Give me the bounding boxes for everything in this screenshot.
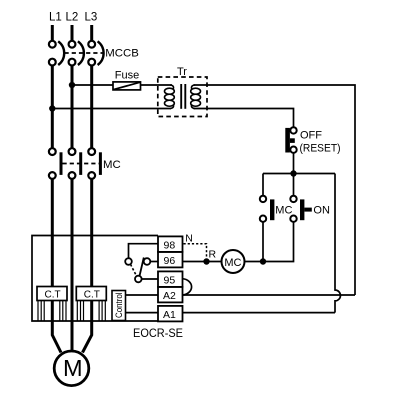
svg-text:L1: L1: [49, 12, 62, 24]
wire L2 mid: [71, 66, 74, 149]
wire jumper 95 to A2: [183, 279, 192, 295]
wire L1 top lead: [51, 25, 54, 41]
svg-text:96: 96: [164, 255, 176, 267]
svg-text:M: M: [63, 355, 83, 381]
svg-text:A1: A1: [163, 309, 176, 321]
current transformer C.T 1 legs: [38, 301, 66, 322]
contactor MC linkage dashed: [63, 163, 102, 165]
svg-text:Control: Control: [114, 293, 124, 319]
wire L2 junction to fuse: [72, 84, 113, 86]
transformer Tr primary coil: [165, 85, 175, 109]
node junction L2 to fuse: [69, 82, 75, 88]
svg-text:C.T: C.T: [45, 290, 61, 301]
breaker MCCB pole 1: [49, 41, 64, 66]
svg-text:ON: ON: [313, 204, 330, 216]
wire branch left down to MC aux: [262, 174, 264, 196]
transformer Tr enclosure dashed: [158, 77, 207, 117]
wire control to A2: [126, 294, 159, 296]
wire transformer secondary top to right rail: [194, 85, 356, 295]
terminal A2: [158, 287, 183, 303]
svg-text:EOCR-SE: EOCR-SE: [133, 326, 183, 340]
wire branch right down to A1 rail with hop: [335, 174, 340, 313]
node junction R tap: [203, 258, 209, 264]
transformer Tr secondary coil: [191, 85, 201, 109]
svg-text:Tr: Tr: [177, 66, 187, 78]
wire fuse to transformer: [141, 84, 173, 86]
wire control to A1: [126, 312, 159, 314]
current transformer C.T 2 legs: [77, 301, 105, 322]
wire branch mid down to ON: [293, 174, 295, 196]
current transformer C.T 1: [37, 287, 67, 301]
svg-text:Fuse: Fuse: [115, 70, 139, 82]
coil MC contactor: [222, 250, 245, 273]
relay changeover contact: [125, 258, 150, 283]
pushbutton OFF (RESET): [285, 127, 296, 153]
contact MC auxiliary NO: [260, 196, 275, 222]
wire L1 junction to transformer: [52, 108, 171, 110]
svg-text:MC: MC: [103, 159, 121, 171]
wire MC aux bottom to coil row: [262, 222, 264, 262]
contactor MC main pole 2: [69, 148, 83, 179]
wire L1 to motor: [52, 321, 61, 353]
svg-text:95: 95: [164, 274, 176, 286]
svg-text:A2: A2: [163, 290, 176, 302]
wire A1 rail: [183, 312, 336, 314]
breaker MCCB pole 2: [69, 41, 84, 66]
terminal A1: [158, 306, 183, 322]
wire L3 lower: [90, 179, 93, 321]
wire L3 mid: [90, 66, 93, 149]
svg-text:N: N: [185, 232, 193, 244]
current transformer C.T 2: [76, 287, 106, 301]
svg-text:MC: MC: [275, 204, 292, 216]
wire L2 top lead: [71, 25, 74, 41]
relay EOCR-SE enclosure: [32, 236, 158, 322]
svg-text:MCCB: MCCB: [105, 48, 139, 60]
wire L1 mid: [51, 66, 54, 149]
svg-text:R: R: [209, 249, 217, 261]
wire L3 top lead: [90, 25, 93, 41]
wire A2 rail: [183, 294, 356, 296]
wire L3 to motor: [83, 321, 92, 353]
wire relay NO to 98: [129, 244, 159, 259]
contactor MC main pole 1: [49, 148, 63, 179]
breaker MCCB linkage dashed: [65, 52, 105, 54]
wire dashed N tap: [184, 244, 207, 258]
control unit box: [112, 291, 126, 321]
terminal 96: [158, 252, 183, 268]
wire coil to junction: [245, 261, 264, 263]
wire L2 to motor: [71, 321, 74, 352]
breaker MCCB pole 3: [88, 41, 103, 66]
svg-text:OFF: OFF: [300, 130, 322, 142]
svg-text:MC: MC: [224, 257, 241, 269]
node junction L1 to transformer: [49, 105, 55, 111]
wire branch horizontal: [263, 173, 335, 175]
svg-text:98: 98: [164, 239, 176, 251]
svg-text:L2: L2: [66, 12, 79, 24]
svg-text:L3: L3: [85, 12, 98, 24]
wire terminal 96 to coil: [183, 261, 222, 263]
motor M: [54, 351, 89, 386]
node branch junction: [290, 170, 296, 176]
svg-text:(RESET): (RESET): [300, 142, 341, 154]
wire transformer secondary bottom to OFF button: [194, 109, 294, 128]
wire OFF to branch junction: [293, 153, 295, 174]
node junction coil row: [260, 258, 266, 264]
wire relay common to 95: [142, 278, 158, 280]
terminal 98: [158, 236, 183, 252]
fuse Fuse body: [113, 82, 141, 90]
terminal 95: [158, 271, 183, 287]
wire ON bottom to coil row: [263, 222, 294, 262]
transformer Tr core: [181, 84, 185, 109]
wire L1 lower: [51, 179, 54, 321]
pushbutton ON: [290, 196, 312, 222]
svg-text:C.T: C.T: [84, 290, 100, 301]
contactor MC main pole 3: [88, 148, 102, 179]
wire relay NC to 96: [150, 261, 158, 263]
wire L2 lower: [71, 179, 74, 321]
